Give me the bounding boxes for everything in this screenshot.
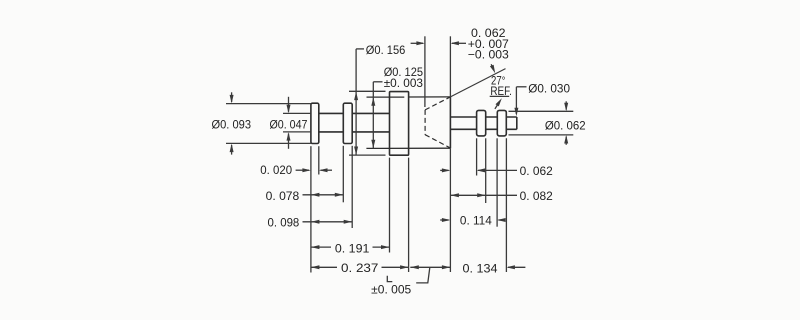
left shaft 0.047 dia bottom edge [319, 131, 344, 133]
dim O0.125 bottom arrow [371, 140, 375, 149]
svg-text:Ø0. 093: Ø0. 093 [212, 118, 252, 132]
gap dimension left arrow [410, 265, 419, 269]
0.125 dia feature line top [367, 96, 405, 98]
gap dimension right arrow [442, 265, 451, 269]
dim 0.114 right arrow [497, 218, 506, 222]
right pin shaft 0.030 dia bottom [450, 128, 516, 130]
right disc 2 (0.062 OD) [497, 110, 506, 135]
extension line flange1 right [318, 146, 320, 174]
dim O0.156 dimension line [355, 49, 357, 155]
dim O0.030 leader vertical [515, 87, 517, 114]
dim 0.062 cone length extension left [424, 36, 426, 107]
angle arrow to slant [491, 64, 494, 70]
svg-text:0. 020: 0. 020 [260, 163, 292, 177]
right pin shaft 0.030 dia top [450, 116, 516, 118]
svg-text:REF.: REF. [490, 84, 512, 98]
dim 0.237 left arrow [311, 265, 320, 269]
dim 0.062 cone length left arrow [411, 42, 423, 44]
extension line disc2 left [496, 138, 498, 226]
dim O0.093 extension line top [226, 103, 311, 105]
dim O0.062 extension top [509, 110, 574, 112]
dim 0.062 cone length right arrow [450, 41, 459, 45]
extension line disc1 right [485, 138, 487, 203]
dim O0.125 dimension line [372, 82, 374, 149]
svg-text:0. 191: 0. 191 [335, 241, 370, 255]
dim 0.078 left arrow [311, 193, 320, 197]
dim 0.191 dimension line right [373, 246, 390, 248]
extension line cylinder left [389, 158, 391, 253]
svg-text:0. 237: 0. 237 [341, 261, 379, 275]
cone slant extension line 27deg [450, 69, 505, 97]
dim 0.114 left arrow [440, 219, 448, 221]
dim 0.191 dimension line left [311, 246, 331, 248]
left shaft 0.047 dia top edge [319, 112, 344, 114]
dim O0.156 bottom arrow [354, 147, 358, 156]
dim O0.125 top arrow [371, 97, 375, 106]
dim O0.047 extension line bottom [283, 131, 311, 133]
dim 0.062 right right arrow [477, 168, 486, 172]
svg-text:±0. 005: ±0. 005 [371, 283, 411, 297]
tolerance L mark [387, 276, 392, 282]
dim O0.030 leader elbow [516, 86, 526, 88]
right disc 1 (0.062 OD) [477, 110, 486, 135]
dim O0.125 leader elbow [373, 81, 382, 83]
dim O0.156 extension top [349, 90, 386, 92]
dim O0.062 lower arrow [565, 137, 567, 145]
svg-text:0. 078: 0. 078 [266, 189, 300, 203]
svg-text:0. 062: 0. 062 [520, 164, 554, 178]
left flange disc 1 (0.093 OD, 0.020 thick) [311, 103, 319, 143]
dim O0.062 upper arrow [565, 101, 567, 109]
dim 0.191 right arrow [381, 245, 390, 249]
dim 0.237 dimension line left [311, 266, 337, 268]
svg-text:0. 082: 0. 082 [520, 189, 554, 203]
cone hidden top slant (dashed) [425, 97, 450, 110]
svg-text:Ø0. 062: Ø0. 062 [545, 118, 586, 132]
dim 0.237 dimension line right [382, 266, 409, 268]
svg-text:±0. 003: ±0. 003 [384, 76, 424, 90]
dim 0.082 right arrow [477, 193, 486, 197]
svg-text:−0. 003: −0. 003 [468, 47, 509, 61]
dim 0.098 right arrow [344, 220, 353, 224]
dim O0.093 lower arrow [231, 145, 233, 155]
dim 0.082 left arrow [450, 193, 459, 197]
svg-text:0. 134: 0. 134 [463, 261, 498, 275]
svg-text:Ø0. 156: Ø0. 156 [366, 43, 406, 57]
dim 0.237 right arrow [400, 265, 409, 269]
dim 0.098 left arrow [311, 220, 320, 224]
dim O0.156 extension bottom [349, 154, 386, 156]
dim 0.098 dimension line [303, 221, 353, 223]
dim 0.062 right left arrow [440, 169, 448, 171]
dim O0.093 upper arrow [231, 92, 233, 102]
tolerance leader [416, 268, 430, 283]
angle reference horizontal line [490, 95, 510, 97]
dim O0.156 leader elbow [356, 48, 364, 50]
cone hidden bottom slant (dashed) [425, 135, 450, 148]
dim O0.047 lower arrow [288, 134, 290, 149]
dim 0.082 dimension line [450, 194, 517, 196]
svg-text:0. 114: 0. 114 [460, 213, 492, 227]
dim O0.156 top arrow [354, 92, 358, 101]
extension line flange1 left [310, 146, 312, 272]
extension line cone face [449, 148, 451, 272]
center cylinder body 0.156 OD [390, 92, 409, 156]
extension line cylinder right [408, 158, 410, 272]
extension line flange2 left [342, 146, 344, 203]
dim 0.078 right arrow [335, 193, 344, 197]
dim O0.062 extension bottom [509, 134, 574, 136]
0.125 dia feature line bottom [366, 147, 450, 149]
dim 0.020 left arrow [296, 169, 309, 171]
dim O0.047 extension line top [283, 112, 311, 114]
right pin shaft end cap [516, 117, 518, 129]
dim 0.134 right arrow [506, 265, 515, 269]
svg-text:0. 098: 0. 098 [268, 216, 300, 230]
dim O0.093 extension line bottom [226, 142, 311, 144]
dim 0.191 left arrow [311, 245, 320, 249]
angle arrow to reference [495, 101, 500, 109]
gap dimension line (tol 0.005) [410, 266, 450, 268]
svg-text:Ø0. 047: Ø0. 047 [270, 118, 308, 132]
dim 0.078 dimension line [303, 194, 344, 196]
cone large end face [449, 97, 451, 148]
left flange disc 2 [343, 103, 352, 143]
extension line disc2 right [505, 138, 507, 272]
dim 0.062 cone length extension right [449, 36, 451, 97]
dim O0.047 upper arrow [288, 97, 290, 112]
dim 0.020 right arrow [319, 168, 328, 172]
svg-text:Ø0. 030: Ø0. 030 [528, 81, 570, 95]
extension line flange2 right [351, 146, 353, 228]
cone hidden small end (dashed) [424, 110, 426, 135]
dim O0.030 arrow [514, 108, 518, 117]
extension line disc1 left [476, 138, 478, 175]
